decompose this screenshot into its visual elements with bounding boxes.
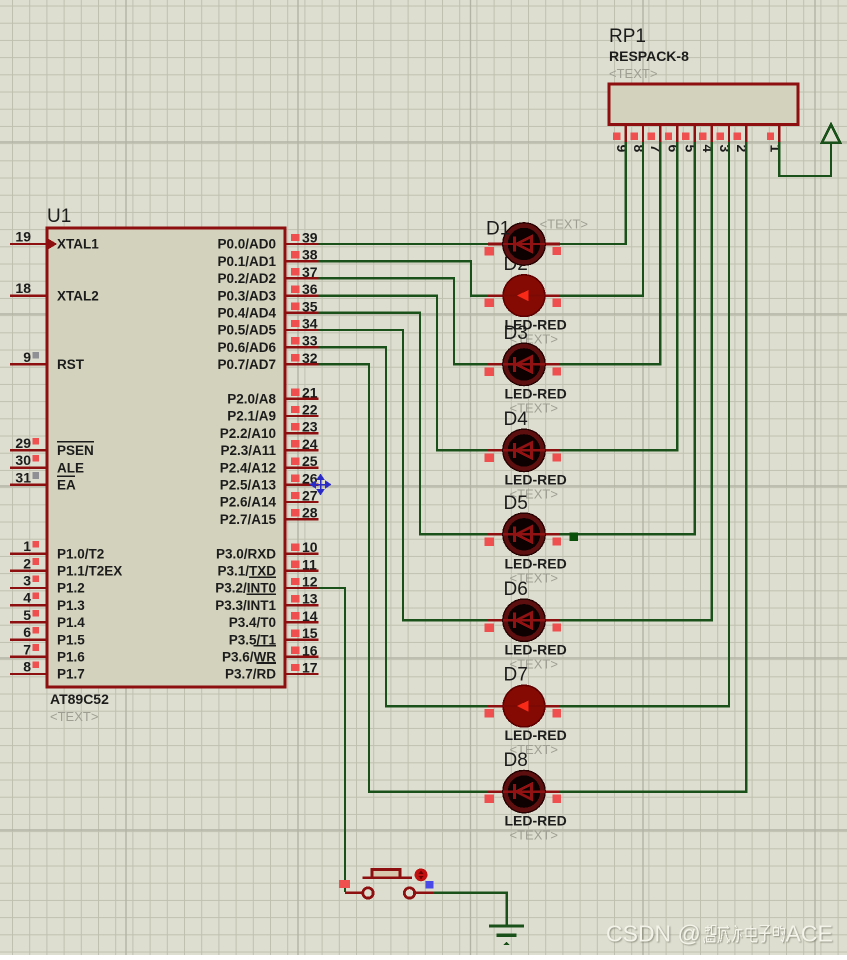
svg-text:31: 31 bbox=[15, 469, 31, 485]
pin number 13 bbox=[302, 591, 318, 607]
U1 pin 23 (P2.2/A10) lead bbox=[285, 432, 319, 434]
svg-text:29: 29 bbox=[15, 435, 31, 451]
svg-text:P3.7/RD: P3.7/RD bbox=[225, 667, 276, 682]
RP1 pin 9 lead bbox=[625, 125, 627, 143]
U1 pin 33 (P0.6/AD6) lead bbox=[285, 346, 319, 348]
pin 27 state square bbox=[291, 492, 300, 499]
label D2 refdes bbox=[504, 254, 528, 275]
svg-text:XTAL1: XTAL1 bbox=[57, 237, 99, 252]
label D5 TEXT placeholder bbox=[510, 570, 558, 585]
RP1 pin number 1 bbox=[767, 145, 783, 153]
label D8 TEXT placeholder bbox=[510, 828, 558, 843]
label D2 LED-RED value bbox=[505, 317, 567, 333]
label D6 refdes bbox=[504, 579, 528, 600]
svg-text:<TEXT>: <TEXT> bbox=[609, 66, 657, 81]
svg-text:P3.3/INT1: P3.3/INT1 bbox=[215, 598, 276, 613]
label D4 TEXT placeholder bbox=[510, 486, 558, 501]
wire button to ground bbox=[433, 893, 507, 925]
pin number 7 bbox=[23, 641, 31, 657]
push button actuator bar and cap bbox=[363, 870, 413, 878]
label D1 TEXT placeholder bbox=[540, 217, 588, 232]
pin 4 state square bbox=[32, 593, 39, 600]
pin label P1.3 bbox=[57, 598, 85, 613]
U1 pin 1 (P1.0/T2) lead bbox=[10, 552, 47, 554]
svg-text:21: 21 bbox=[302, 384, 318, 400]
pin label P3.2/INT0 bbox=[215, 581, 276, 596]
LED D5 (LED-RED) bbox=[485, 513, 561, 555]
pin label PSEN bbox=[57, 443, 94, 458]
svg-text:19: 19 bbox=[15, 229, 31, 245]
RP1 pin 8 lead bbox=[642, 125, 644, 143]
pin 5 state square bbox=[32, 610, 39, 617]
pin number 35 bbox=[302, 298, 318, 314]
wire U1 P0.7 to D8 anode bbox=[319, 364, 491, 791]
U1 pin 29 (PSEN) lead bbox=[10, 449, 47, 451]
ground symbol bbox=[489, 926, 524, 945]
U1 pin 9 (RST) lead bbox=[10, 363, 47, 365]
label D2 TEXT placeholder bbox=[510, 332, 558, 347]
svg-text:P1.1/T2EX: P1.1/T2EX bbox=[57, 564, 122, 579]
LED D7 (LED-RED) bbox=[485, 685, 561, 727]
pin label P1.4 bbox=[57, 615, 85, 630]
RP1 pin number 4 bbox=[700, 145, 716, 153]
op-amp U1 body (AT89C52 microcontroller) bbox=[47, 228, 285, 687]
svg-text:P1.2: P1.2 bbox=[57, 581, 85, 596]
pin label P0.6/AD6 bbox=[217, 340, 276, 355]
pin number 12 bbox=[302, 574, 318, 590]
pin number 31 bbox=[15, 469, 31, 485]
U1 pin 35 (P0.4/AD4) lead bbox=[285, 312, 319, 314]
svg-text:RP1: RP1 bbox=[609, 26, 646, 47]
overline for PSEN bbox=[57, 441, 94, 443]
RP1 pin 8 state square bbox=[630, 133, 637, 140]
svg-text:2: 2 bbox=[23, 555, 31, 571]
pin label P1.5 bbox=[57, 632, 85, 647]
RP1 pin 4 lead bbox=[711, 125, 713, 143]
RP1 pin 7 lead bbox=[659, 125, 661, 143]
svg-text:LED-RED: LED-RED bbox=[505, 813, 567, 829]
RP1 pin 4 state square bbox=[699, 133, 706, 140]
svg-text:LED-RED: LED-RED bbox=[505, 471, 567, 487]
label D6 LED-RED value bbox=[505, 641, 567, 657]
svg-text:3: 3 bbox=[23, 573, 31, 589]
pin label P1.0/T2 bbox=[57, 546, 104, 561]
wire D6 cathode to RP1 bbox=[558, 142, 712, 620]
U1 pin 31 (EA) lead bbox=[10, 484, 47, 486]
LED D4 (LED-RED) bbox=[485, 429, 561, 471]
pin label P0.7/AD7 bbox=[217, 357, 276, 372]
svg-text:7: 7 bbox=[648, 145, 664, 153]
pin label XTAL2 bbox=[57, 288, 99, 303]
wire D8 cathode to RP1 bbox=[558, 142, 746, 792]
pin 13 state square bbox=[291, 595, 300, 602]
svg-text:2: 2 bbox=[734, 145, 750, 153]
svg-text:D7: D7 bbox=[504, 665, 528, 686]
U1 pin 30 (ALE) lead bbox=[10, 466, 47, 468]
svg-text:1: 1 bbox=[767, 145, 783, 153]
svg-text:14: 14 bbox=[302, 608, 318, 624]
RP1 pin number 8 bbox=[631, 145, 647, 153]
U1 pin 12 (P3.2/INT0) lead bbox=[285, 587, 319, 589]
svg-text:P1.5: P1.5 bbox=[57, 632, 85, 647]
RP1 pin 6 lead bbox=[676, 125, 678, 143]
pin 23 state square bbox=[291, 423, 300, 430]
svg-text:5: 5 bbox=[23, 607, 31, 623]
pin label ALE bbox=[57, 460, 84, 475]
wire D1 cathode to RP1 bbox=[558, 142, 626, 244]
U1 pin 15 (P3.5/T1) lead bbox=[285, 638, 319, 640]
pin number 23 bbox=[302, 419, 318, 435]
U1 pin 36 (P0.3/AD3) lead bbox=[285, 294, 319, 296]
pin 1 state square bbox=[32, 541, 39, 548]
pin label P3.1/TXD bbox=[217, 564, 276, 579]
label D3 refdes bbox=[504, 323, 528, 344]
pin 10 state square bbox=[291, 543, 300, 550]
LED D3 (LED-RED) bbox=[485, 343, 561, 385]
pin 3 state square bbox=[32, 575, 39, 582]
U1 pin 21 (P2.0/A8) lead bbox=[285, 398, 319, 400]
pin number 19 bbox=[15, 229, 31, 245]
wire RP1 pin1 to power terminal bbox=[779, 142, 831, 176]
svg-text:38: 38 bbox=[302, 247, 318, 263]
pin number 6 bbox=[23, 624, 31, 640]
LED D2 (LED-RED) bbox=[485, 275, 561, 317]
label D7 LED-RED value bbox=[505, 727, 567, 743]
svg-text:11: 11 bbox=[302, 556, 317, 572]
U1 pin 7 (P1.6) lead bbox=[10, 656, 47, 658]
pin label EA bbox=[57, 478, 76, 493]
RP1 pin number 9 bbox=[614, 145, 630, 153]
pin label P0.4/AD4 bbox=[217, 306, 276, 321]
svg-text:P0.3/AD3: P0.3/AD3 bbox=[217, 288, 276, 303]
label U1 refdes bbox=[47, 206, 71, 227]
pin 21 state square bbox=[291, 389, 300, 396]
label D4 refdes bbox=[504, 409, 529, 430]
U1 pin 25 (P2.4/A12) lead bbox=[285, 466, 319, 468]
pin number 3 bbox=[23, 573, 31, 589]
svg-text:LED-RED: LED-RED bbox=[505, 641, 567, 657]
wire U1 pin12 (P3.2/INT0) to button bbox=[319, 588, 346, 892]
underline for TXD bbox=[249, 576, 276, 578]
RP1 pin 1 state square bbox=[767, 133, 774, 140]
svg-text:25: 25 bbox=[302, 453, 318, 469]
pin number 16 bbox=[302, 642, 318, 658]
RP1 pin number 5 bbox=[683, 145, 699, 153]
label D4 LED-RED value bbox=[505, 471, 567, 487]
svg-text:P1.7: P1.7 bbox=[57, 667, 85, 682]
svg-text:24: 24 bbox=[302, 436, 318, 452]
LED D1 (LED-RED) bbox=[485, 223, 561, 265]
label D7 refdes bbox=[504, 665, 528, 686]
svg-text:6: 6 bbox=[665, 145, 681, 153]
pin label P0.5/AD5 bbox=[217, 323, 276, 338]
svg-text:36: 36 bbox=[302, 281, 318, 297]
svg-text:RST: RST bbox=[57, 357, 85, 372]
pin number 25 bbox=[302, 453, 318, 469]
svg-text:1: 1 bbox=[23, 538, 31, 554]
push button actuator knob (red) bbox=[415, 869, 428, 882]
pin label P0.3/AD3 bbox=[217, 288, 276, 303]
svg-text:D8: D8 bbox=[504, 750, 528, 771]
label D3 LED-RED value bbox=[505, 385, 567, 401]
RP1 pin 5 lead bbox=[693, 125, 695, 143]
RP1 pin number 7 bbox=[648, 145, 664, 153]
svg-text:<TEXT>: <TEXT> bbox=[540, 217, 588, 232]
svg-text:9: 9 bbox=[23, 349, 31, 365]
svg-text:CSDN @: CSDN @ bbox=[606, 921, 701, 947]
U1 pin 11 (P3.1/TXD) lead bbox=[285, 570, 319, 572]
label AT89C52 value bbox=[50, 691, 109, 707]
pin 31 state square bbox=[32, 472, 39, 479]
pin label P2.4/A12 bbox=[220, 460, 276, 475]
pin number 22 bbox=[302, 402, 318, 418]
pin number 11 bbox=[302, 556, 317, 572]
U1 pin 8 (P1.7) lead bbox=[10, 673, 47, 675]
svg-text:EA: EA bbox=[57, 478, 76, 493]
pin number 10 bbox=[302, 539, 318, 555]
pin 16 state square bbox=[291, 647, 300, 654]
svg-text:<TEXT>: <TEXT> bbox=[510, 828, 558, 843]
wire D7 cathode to RP1 bbox=[558, 142, 729, 706]
svg-text:P2.7/A15: P2.7/A15 bbox=[220, 512, 277, 527]
button terminal state square (blue) bbox=[426, 881, 434, 888]
U1 pin 24 (P2.3/A11) lead bbox=[285, 449, 319, 451]
U1 pin 17 (P3.7/RD) lead bbox=[285, 673, 319, 675]
watermark ACE bbox=[786, 921, 833, 947]
svg-text:P2.4/A12: P2.4/A12 bbox=[220, 460, 276, 475]
svg-text:P2.2/A10: P2.2/A10 bbox=[220, 426, 276, 441]
U1 pin 19 (XTAL1) lead bbox=[10, 243, 47, 245]
pin label P2.0/A8 bbox=[227, 392, 276, 407]
pin 32 state square bbox=[291, 354, 300, 361]
RP1 pin 7 state square bbox=[648, 133, 655, 140]
svg-text:5: 5 bbox=[683, 145, 699, 153]
wire D5 cathode to RP1 bbox=[558, 142, 695, 534]
overline for WR bbox=[254, 645, 277, 647]
svg-text:8: 8 bbox=[631, 145, 647, 153]
svg-text:7: 7 bbox=[23, 641, 31, 657]
pin 36 state square bbox=[291, 285, 300, 292]
pin 8 state square bbox=[32, 661, 39, 668]
U1 pin 22 (P2.1/A9) lead bbox=[285, 415, 319, 417]
svg-text:16: 16 bbox=[302, 642, 318, 658]
U1 pin 5 (P1.4) lead bbox=[10, 621, 47, 623]
svg-text:D5: D5 bbox=[504, 493, 528, 514]
U1 pin 14 (P3.4/T0) lead bbox=[285, 621, 319, 623]
svg-text:3: 3 bbox=[717, 145, 733, 153]
svg-text:P3.0/RXD: P3.0/RXD bbox=[216, 546, 276, 561]
label RESPACK-8 value bbox=[609, 48, 689, 64]
watermark chinese characters bbox=[704, 926, 784, 943]
pin 35 state square bbox=[291, 303, 300, 310]
pin 30 state square bbox=[32, 455, 39, 462]
RP1 pin number 6 bbox=[665, 145, 681, 153]
label D3 TEXT placeholder bbox=[510, 400, 558, 415]
pin label P2.5/A13 bbox=[220, 478, 277, 493]
pin number 24 bbox=[302, 436, 318, 452]
pin 25 state square bbox=[291, 457, 300, 464]
pin number 18 bbox=[15, 280, 31, 296]
push button contacts bbox=[345, 888, 433, 898]
wire D2 cathode to RP1 bbox=[558, 142, 643, 296]
svg-text:17: 17 bbox=[302, 660, 318, 676]
pin number 21 bbox=[302, 384, 318, 400]
svg-text:4: 4 bbox=[700, 145, 716, 153]
svg-text:28: 28 bbox=[302, 505, 318, 521]
U1 pin 38 (P0.1/AD1) lead bbox=[285, 260, 319, 262]
RP1 pin number 2 bbox=[734, 145, 750, 153]
svg-text:<TEXT>: <TEXT> bbox=[50, 709, 98, 724]
svg-text:P0.7/AD7: P0.7/AD7 bbox=[217, 357, 276, 372]
wire U1 P0.0 to D1 anode bbox=[319, 243, 491, 245]
svg-text:D6: D6 bbox=[504, 579, 528, 600]
wire U1 P0.1 to D2 anode bbox=[319, 261, 491, 295]
svg-text:P1.0/T2: P1.0/T2 bbox=[57, 546, 104, 561]
pin 33 state square bbox=[291, 337, 300, 344]
svg-text:U1: U1 bbox=[47, 206, 71, 227]
pin label P2.1/A9 bbox=[227, 409, 276, 424]
svg-text:6: 6 bbox=[23, 624, 31, 640]
svg-text:P0.2/AD2: P0.2/AD2 bbox=[217, 271, 276, 286]
wire U1 P0.6 to D7 anode bbox=[319, 347, 491, 706]
power terminal (VCC arrow) bbox=[822, 125, 840, 146]
svg-text:RESPACK-8: RESPACK-8 bbox=[609, 48, 689, 64]
pin 6 state square bbox=[32, 627, 39, 634]
pin 28 state square bbox=[291, 509, 300, 516]
svg-text:P3.1/TXD: P3.1/TXD bbox=[217, 564, 276, 579]
svg-text:15: 15 bbox=[302, 625, 318, 641]
pin number 14 bbox=[302, 608, 318, 624]
label D8 refdes bbox=[504, 750, 528, 771]
svg-text:4: 4 bbox=[23, 590, 31, 606]
origin marker (blue move cursor) bbox=[311, 475, 331, 495]
RP1 pin number 3 bbox=[717, 145, 733, 153]
pin label P3.0/RXD bbox=[216, 546, 276, 561]
U1 pin 3 (P1.2) lead bbox=[10, 587, 47, 589]
LED D6 (LED-RED) bbox=[485, 599, 561, 641]
svg-text:23: 23 bbox=[302, 419, 318, 435]
pin 39 state square bbox=[291, 234, 300, 241]
svg-text:27: 27 bbox=[302, 488, 318, 504]
svg-text:ACE: ACE bbox=[786, 921, 833, 947]
pin number 27 bbox=[302, 488, 318, 504]
U1 pin 16 (P3.6/WR) lead bbox=[285, 656, 319, 658]
LED D8 (LED-RED) bbox=[485, 770, 561, 812]
svg-text:D1: D1 bbox=[486, 219, 510, 240]
pin label XTAL1 bbox=[57, 237, 99, 252]
label D5 refdes bbox=[504, 493, 528, 514]
pin 24 state square bbox=[291, 440, 300, 447]
wire D3 cathode to RP1 bbox=[558, 142, 660, 364]
label D1 refdes bbox=[486, 219, 510, 240]
pin label P0.0/AD0 bbox=[217, 237, 276, 252]
svg-text:D4: D4 bbox=[504, 409, 529, 430]
pin number 26 bbox=[302, 470, 318, 486]
svg-text:18: 18 bbox=[15, 280, 31, 296]
U1 pin 6 (P1.5) lead bbox=[10, 638, 47, 640]
label D5 LED-RED value bbox=[505, 555, 567, 571]
wire U1 P0.2 to D3 anode bbox=[319, 278, 491, 364]
pin 34 state square bbox=[291, 320, 300, 327]
pin number 15 bbox=[302, 625, 318, 641]
svg-text:35: 35 bbox=[302, 298, 318, 314]
svg-text:LED-RED: LED-RED bbox=[505, 555, 567, 571]
U1 pin 34 (P0.5/AD5) lead bbox=[285, 329, 319, 331]
svg-text:LED-RED: LED-RED bbox=[505, 385, 567, 401]
wire U1 P0.3 to D4 anode bbox=[319, 296, 491, 451]
pin number 1 bbox=[23, 538, 31, 554]
svg-text:P1.4: P1.4 bbox=[57, 615, 85, 630]
U1 pin 28 (P2.7/A15) lead bbox=[285, 518, 319, 520]
U1 pin 10 (P3.0/RXD) lead bbox=[285, 552, 319, 554]
RP1 pin 1 lead bbox=[778, 125, 780, 143]
pin label P0.2/AD2 bbox=[217, 271, 276, 286]
pin 15 state square bbox=[291, 629, 300, 636]
pin number 32 bbox=[302, 350, 318, 366]
U1 pin 39 (P0.0/AD0) lead bbox=[285, 243, 319, 245]
pin number 34 bbox=[302, 316, 318, 332]
U1 pin 26 (P2.5/A13) lead bbox=[285, 484, 319, 486]
svg-text:30: 30 bbox=[15, 452, 31, 468]
pin number 17 bbox=[302, 660, 318, 676]
pin label P3.6/WR bbox=[222, 650, 276, 665]
svg-text:P2.5/A13: P2.5/A13 bbox=[220, 478, 277, 493]
pin 2 state square bbox=[32, 558, 39, 565]
RP1 pin 9 state square bbox=[613, 133, 620, 140]
XTAL1 clock input arrow bbox=[48, 239, 57, 250]
pin number 30 bbox=[15, 452, 31, 468]
pin label P3.7/RD bbox=[225, 667, 276, 682]
label D8 LED-RED value bbox=[505, 813, 567, 829]
RP1 pin 3 lead bbox=[728, 125, 730, 143]
label RP1 TEXT placeholder bbox=[609, 66, 657, 81]
pin number 29 bbox=[15, 435, 31, 451]
pin 14 state square bbox=[291, 612, 300, 619]
svg-text:P0.0/AD0: P0.0/AD0 bbox=[217, 237, 276, 252]
label U1 TEXT placeholder bbox=[50, 709, 98, 724]
pin label P1.2 bbox=[57, 581, 85, 596]
pin number 4 bbox=[23, 590, 31, 606]
pin label P0.1/AD1 bbox=[217, 254, 276, 269]
svg-text:39: 39 bbox=[302, 230, 318, 246]
underline for INT0 bbox=[247, 593, 276, 595]
svg-text:P1.3: P1.3 bbox=[57, 598, 85, 613]
svg-text:XTAL2: XTAL2 bbox=[57, 288, 99, 303]
RP1 pin 6 state square bbox=[665, 133, 672, 140]
U1 pin 18 (XTAL2) lead bbox=[10, 294, 47, 296]
svg-text:P0.4/AD4: P0.4/AD4 bbox=[217, 306, 276, 321]
pin 17 state square bbox=[291, 664, 300, 671]
pin label P2.2/A10 bbox=[220, 426, 276, 441]
label D7 TEXT placeholder bbox=[510, 742, 558, 757]
wire D4 cathode to RP1 bbox=[558, 142, 677, 450]
wire U1 P0.4 to D5 anode bbox=[319, 313, 491, 535]
svg-text:P3.4/T0: P3.4/T0 bbox=[229, 615, 276, 630]
pin 29 state square bbox=[32, 438, 39, 445]
U1 pin 32 (P0.7/AD7) lead bbox=[285, 363, 319, 365]
pin number 36 bbox=[302, 281, 318, 297]
U1 pin 37 (P0.2/AD2) lead bbox=[285, 277, 319, 279]
label D6 TEXT placeholder bbox=[510, 656, 558, 671]
svg-text:P1.6: P1.6 bbox=[57, 650, 85, 665]
pin label RST bbox=[57, 357, 85, 372]
svg-text:P2.0/A8: P2.0/A8 bbox=[227, 392, 276, 407]
svg-text:LED-RED: LED-RED bbox=[505, 727, 567, 743]
svg-text:32: 32 bbox=[302, 350, 318, 366]
wire U1 P0.5 to D6 anode bbox=[319, 330, 491, 620]
pin number 37 bbox=[302, 264, 318, 280]
resistor pack RP1 body (RESPACK-8) bbox=[609, 84, 798, 125]
